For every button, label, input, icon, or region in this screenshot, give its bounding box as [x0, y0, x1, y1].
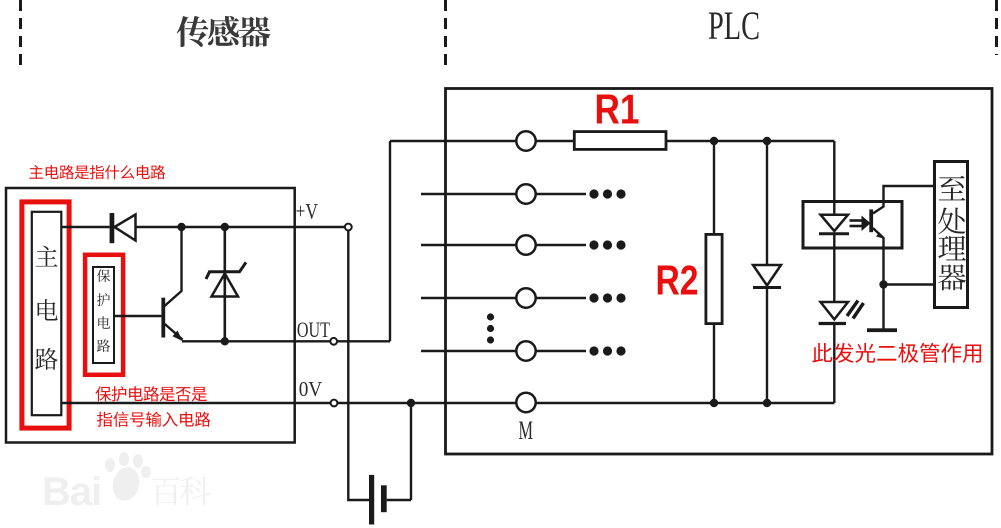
input terminal circle row 4 — [516, 288, 535, 307]
wire base from 保护电路 — [114, 315, 161, 317]
wire row 1 circle to R1 — [536, 140, 575, 142]
wire row1 corner down to optocoupler LED — [833, 141, 835, 214]
diode D2 vertical branch — [753, 141, 781, 403]
wire stub row 2 — [536, 193, 586, 195]
svg-text:R1: R1 — [595, 86, 640, 133]
label 主电路 vertical text — [35, 246, 58, 370]
ellipsis dots row 5 — [589, 346, 625, 355]
wire +V row from diode to +V terminal — [136, 226, 345, 228]
input terminal circle row 5 — [516, 341, 535, 360]
optocoupler U1 box — [803, 202, 902, 249]
junction dot zener/OUT — [221, 337, 229, 345]
vertical ellipsis dots between rows — [487, 313, 494, 343]
transistor Q1 emitter with arrow — [165, 324, 183, 341]
svg-text:Bai: Bai — [42, 470, 101, 514]
主电路 (main circuit) block — [32, 212, 62, 415]
optocoupler light arrows — [850, 216, 871, 232]
ellipsis dots row 3 — [589, 240, 625, 249]
optocoupler LED — [819, 215, 849, 302]
zener diode ZD vertical branch — [206, 227, 246, 341]
watermark Baidu Baike — [42, 452, 210, 514]
terminal OUT open circle — [330, 338, 337, 345]
junction dot collector/+V — [177, 223, 185, 231]
ellipsis dots row 2 — [589, 189, 625, 198]
input terminal circle row 3 — [516, 235, 535, 254]
wire R2 top — [713, 141, 715, 233]
wire row 1 R1 to optocoupler — [666, 140, 834, 142]
wire +V row from 主电路 to diode — [62, 226, 110, 228]
wire OUT to PLC input 1 riser — [389, 141, 391, 341]
sensor enclosure box — [6, 188, 295, 443]
PLC enclosure box — [446, 89, 993, 455]
wire input row 3 — [421, 244, 516, 246]
wire +V to battery drop — [348, 230, 369, 500]
保护电路 (protection circuit) block — [93, 267, 114, 363]
battery BT1 — [369, 403, 411, 525]
annotation 指信号输入电路 — [97, 412, 210, 427]
indicator LED D3 — [819, 302, 848, 403]
wire OUT row — [182, 340, 390, 342]
terminal +V open circle — [345, 224, 352, 231]
resistor R1 body — [574, 132, 666, 150]
junction dot battery/0V — [407, 399, 415, 407]
input terminal circle row 1 — [516, 131, 535, 150]
junction dot D2/row1 — [763, 137, 771, 145]
svg-text:PLC: PLC — [708, 3, 760, 48]
ellipsis dots row 4 — [589, 293, 625, 302]
red highlight rectangle around 保护电路 — [85, 255, 123, 375]
svg-text:0V: 0V — [299, 377, 323, 401]
label 保护电路 vertical text — [97, 269, 110, 352]
input terminal circle M — [516, 393, 535, 412]
optocoupler phototransistor — [869, 186, 933, 285]
junction dot zener/+V — [221, 223, 229, 231]
svg-text:+V: +V — [296, 199, 319, 224]
transistor Q1 base bar — [161, 298, 165, 338]
至处理器 (to processor) box — [935, 162, 968, 308]
wire input row 4 — [421, 297, 516, 299]
diode D (reverse-protection, cathode bar left) — [110, 213, 136, 243]
LED light emission strokes — [847, 301, 864, 319]
junction dot emitter node — [879, 280, 887, 288]
boundary dashed line left — [19, 0, 22, 67]
wire stub row 3 — [536, 244, 586, 246]
label 传感器 (sensor region title) — [177, 16, 271, 47]
label 至处理器 vertical text — [938, 176, 966, 291]
input terminal circle row 2 — [516, 184, 535, 203]
wire input row 2 — [421, 193, 516, 195]
resistor R2 body — [706, 234, 722, 323]
annotation 此发光二极管作用 — [812, 343, 981, 363]
annotation 主电路是指什么电路 — [29, 165, 165, 179]
boundary dashed line right — [995, 0, 998, 55]
red highlight rectangle around 主电路 — [22, 202, 69, 428]
wire 0V row from 主电路 to PLC M input — [62, 402, 835, 404]
wire R2 bottom — [713, 324, 715, 403]
wire transistor collector — [165, 227, 182, 306]
wire emitter node to processor box — [884, 283, 934, 285]
wire input row 5 — [421, 350, 516, 352]
junction dot R2/bottom rail — [710, 399, 718, 407]
boundary dashed line middle — [444, 0, 447, 67]
terminal 0V open circle — [331, 400, 338, 407]
junction dot D2/bottom rail — [763, 399, 771, 407]
wire stub row 4 — [536, 297, 586, 299]
wire stub row 5 — [536, 350, 586, 352]
svg-text:M: M — [519, 416, 534, 445]
junction dot R2/row1 — [710, 137, 718, 145]
wire emitter node to ground — [882, 285, 884, 329]
annotation 保护电路是否是 — [95, 386, 207, 401]
wire input row 1 — [390, 140, 516, 142]
ground bar — [867, 328, 897, 332]
svg-text:R2: R2 — [656, 257, 699, 304]
svg-text:OUT: OUT — [297, 317, 330, 342]
